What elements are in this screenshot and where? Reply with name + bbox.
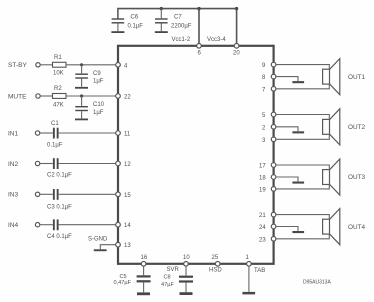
wire pin2 to ground (276, 127, 298, 131)
wire ST-BY to R1 (40, 64, 52, 66)
pin 4 (116, 63, 121, 68)
node junction above C7 (160, 7, 163, 10)
svg-text:OUT2: OUT2 (348, 124, 365, 131)
ground under C8 (180, 292, 193, 295)
svg-text:16: 16 (141, 255, 148, 261)
svg-text:MUTE: MUTE (8, 93, 27, 100)
capacitor C7 2200uF (155, 9, 192, 32)
OUT4 channel: pin 21 (271, 212, 276, 217)
svg-text:47K: 47K (53, 102, 64, 108)
speaker OUT3 (323, 159, 366, 195)
svg-text:25: 25 (212, 255, 219, 261)
wire top supply rail (118, 9, 237, 46)
svg-text:TAB: TAB (254, 268, 265, 274)
resistor R2 47K (53, 94, 67, 99)
ground under C10 (75, 119, 88, 121)
svg-text:HSD: HSD (209, 268, 222, 274)
ground pin24 (292, 231, 304, 233)
wire pin19 to speaker3 (276, 185, 329, 189)
wire pin9 to speaker1 (276, 65, 329, 70)
OUT1 channel: pin 9 (271, 62, 276, 67)
pin 2 (271, 125, 276, 130)
svg-text:IN2: IN2 (8, 161, 19, 168)
pin 6 (197, 44, 202, 49)
pin 19 (271, 187, 276, 192)
pin 20 (234, 44, 239, 49)
svg-text:C2 0.1µF: C2 0.1µF (47, 173, 72, 179)
pin 7 (271, 87, 276, 92)
svg-text:15: 15 (124, 193, 131, 199)
wire pin17 to speaker3 (276, 165, 329, 170)
wire pin3 to speaker2 (276, 134, 329, 139)
capacitor C9 1uF (75, 65, 103, 87)
ground S-GND (94, 249, 107, 251)
wire pin1 to ground (248, 266, 250, 292)
wire pin24 to ground (276, 227, 298, 231)
svg-text:IN4: IN4 (8, 222, 19, 229)
ground under C7 (155, 31, 168, 33)
pin 15 (116, 192, 121, 197)
svg-text:D95AU313A: D95AU313A (303, 279, 331, 285)
svg-text:10K: 10K (53, 70, 64, 76)
node junction rail right end (235, 7, 238, 10)
capacitor C1 0.1uF series (40, 121, 118, 148)
svg-text:C3 0.1µF: C3 0.1µF (47, 204, 72, 210)
svg-text:S-GND: S-GND (88, 237, 108, 243)
ground under C6 (111, 31, 124, 33)
svg-text:C6: C6 (131, 15, 139, 21)
svg-text:1µF: 1µF (93, 79, 104, 85)
svg-text:14: 14 (124, 223, 131, 229)
svg-text:OUT1: OUT1 (348, 74, 365, 81)
svg-text:Vcc1-2: Vcc1-2 (172, 37, 191, 43)
pin 1 TAB (247, 262, 252, 267)
svg-text:Vcc3-4: Vcc3-4 (207, 37, 226, 43)
ground under C9 (75, 87, 88, 89)
svg-text:21: 21 (259, 213, 266, 219)
capacitor C5 0.47uF (114, 266, 151, 292)
svg-text:OUT4: OUT4 (348, 224, 365, 231)
capacitor C3 0.1uF series (40, 189, 118, 210)
wire pin23 to speaker4 (276, 234, 329, 239)
pin 25 HSD (215, 262, 220, 267)
svg-text:IN1: IN1 (8, 130, 19, 137)
svg-text:2200µF: 2200µF (171, 24, 192, 30)
svg-text:10: 10 (183, 255, 190, 261)
pin 12 (116, 161, 121, 166)
pin 18 (271, 175, 276, 180)
svg-text:OUT3: OUT3 (348, 174, 365, 181)
pin 10 SVR (184, 262, 189, 267)
wire pin8 to ground (276, 77, 298, 81)
wire pin6 riser (198, 9, 200, 46)
svg-text:12: 12 (124, 162, 131, 168)
pin 8 (271, 74, 276, 79)
node junction above pin6 (197, 7, 200, 10)
svg-text:19: 19 (259, 187, 266, 193)
svg-text:C10: C10 (93, 102, 105, 108)
speaker OUT2 (323, 109, 366, 145)
resistor R1 10K (53, 62, 67, 67)
wire pin18 to ground (276, 177, 298, 181)
svg-text:0,47µF: 0,47µF (114, 280, 132, 286)
svg-text:R2: R2 (54, 86, 62, 92)
svg-text:C9: C9 (93, 71, 101, 77)
ground TAB (242, 292, 255, 295)
wire pin5 to speaker2 (276, 115, 329, 120)
speaker OUT1 (323, 59, 366, 95)
svg-text:0.1µF: 0.1µF (128, 24, 144, 30)
capacitor C8 47uF (161, 266, 193, 292)
wire MUTE to R2 (40, 95, 52, 97)
capacitor C4 0.1uF series (40, 219, 118, 240)
speaker OUT4 (323, 209, 366, 245)
capacitor C2 0.1uF series (40, 158, 118, 178)
pin 24 (271, 224, 276, 229)
svg-text:24: 24 (259, 225, 266, 231)
svg-text:C7: C7 (174, 15, 182, 21)
svg-text:20: 20 (233, 50, 240, 56)
node junction C9 tap (80, 63, 83, 66)
node junction C10 tap (80, 94, 83, 97)
svg-text:0.1µF: 0.1µF (47, 142, 63, 148)
pin 16 (141, 262, 146, 267)
wire pin13 to ground (100, 245, 118, 250)
svg-text:ST-BY: ST-BY (8, 62, 27, 69)
OUT3 channel: pin 17 (271, 163, 276, 168)
wire pin21 to speaker4 (276, 215, 329, 220)
pin 3 (271, 137, 276, 142)
ground pin8 (292, 81, 304, 83)
svg-text:17: 17 (259, 164, 266, 170)
pin 23 (271, 237, 276, 242)
wire R2 to pin 22 (66, 95, 118, 97)
capacitor C6 0.1uF (112, 9, 144, 32)
wire R1 to pin 4 (66, 64, 118, 66)
svg-text:SVR: SVR (167, 267, 180, 273)
svg-text:13: 13 (124, 243, 131, 249)
IC body U1 (118, 46, 274, 264)
pin 11 (116, 131, 121, 136)
capacitor C10 1uF (75, 96, 104, 118)
ground pin18 (292, 182, 304, 184)
pin 14 (116, 222, 121, 227)
svg-text:IN3: IN3 (8, 192, 19, 199)
svg-text:C1: C1 (51, 121, 59, 127)
wire pin7 to speaker1 (276, 84, 329, 89)
ground pin2 (292, 131, 304, 133)
svg-text:22: 22 (124, 95, 131, 101)
svg-text:C4 0.1µF: C4 0.1µF (47, 234, 72, 240)
ground under C5 (137, 292, 150, 295)
pin 13 (116, 242, 121, 247)
pin 22 (116, 94, 121, 99)
svg-text:C8: C8 (164, 274, 171, 280)
svg-text:1µF: 1µF (93, 110, 104, 116)
svg-text:18: 18 (259, 176, 266, 182)
svg-text:R1: R1 (54, 55, 62, 61)
svg-text:23: 23 (259, 237, 266, 243)
svg-text:47µF: 47µF (161, 282, 174, 288)
OUT2 channel: pin 5 (271, 112, 276, 117)
svg-text:11: 11 (124, 132, 131, 138)
